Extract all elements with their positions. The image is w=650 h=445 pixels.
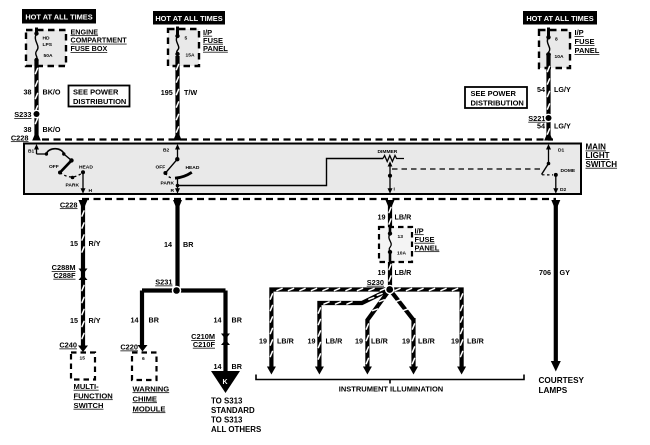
arrow branch 3	[363, 367, 372, 375]
label 38 BK/O (lower)	[24, 125, 61, 134]
svg-text:OFF: OFF	[49, 164, 59, 170]
terminal R output	[171, 188, 181, 194]
label 54 LG/Y (upper)	[537, 85, 571, 94]
connector symbol C228 on wire H	[79, 200, 88, 207]
label WARNING CHIME MODULE	[133, 384, 170, 413]
label 14 BR (chime wire)	[131, 316, 160, 325]
label 14 BR (upper K wire)	[214, 316, 243, 325]
svg-text:LB/R: LB/R	[467, 337, 485, 346]
svg-text:HOT AT ALL TIMES: HOT AT ALL TIMES	[25, 13, 92, 22]
svg-text:H: H	[89, 188, 93, 194]
svg-text:13: 13	[398, 234, 404, 240]
svg-text:15: 15	[70, 316, 78, 325]
svg-text:6: 6	[142, 356, 145, 362]
svg-text:PANEL: PANEL	[203, 44, 228, 53]
svg-text:BK/O: BK/O	[43, 88, 61, 97]
svg-text:C228: C228	[11, 133, 29, 142]
svg-text:C240: C240	[59, 341, 77, 350]
terminal B1 arrow	[28, 144, 39, 155]
label MULTI-FUNCTION SWITCH	[74, 382, 113, 410]
connector C220	[120, 343, 147, 352]
svg-text:DISTRIBUTION: DISTRIBUTION	[471, 99, 524, 108]
svg-text:LB/R: LB/R	[371, 337, 389, 346]
wire 19 LB/R (fuse panel to S230)	[388, 262, 392, 290]
label I/P FUSE PANEL (right top)	[575, 28, 600, 55]
svg-text:R: R	[171, 188, 175, 194]
svg-text:SEE POWER: SEE POWER	[471, 89, 517, 98]
splice S233	[14, 110, 39, 119]
svg-text:OFF: OFF	[156, 165, 166, 171]
wire hatch marks	[35, 64, 549, 363]
label 19 LB/R (below fuse)	[378, 268, 413, 277]
svg-text:HEAD: HEAD	[186, 165, 200, 171]
svg-text:MODULE: MODULE	[133, 404, 166, 413]
svg-text:PANEL: PANEL	[415, 243, 440, 252]
svg-text:B1: B1	[28, 149, 35, 155]
svg-text:COURTESY: COURTESY	[539, 376, 585, 385]
fuse 8 10A	[546, 28, 564, 61]
svg-text:DISTRIBUTION: DISTRIBUTION	[73, 97, 126, 106]
svg-text:195: 195	[161, 88, 173, 97]
svg-text:10A: 10A	[397, 251, 406, 257]
splice dot overlays	[32, 110, 553, 296]
splice S230	[367, 278, 393, 293]
label 19 LB/R branch 3	[355, 337, 389, 346]
arrow branch 2	[315, 367, 324, 375]
bracket instrument illumination	[256, 375, 524, 384]
terminal D2 output	[553, 175, 566, 194]
svg-text:WARNING: WARNING	[133, 384, 170, 393]
wire 15 R/Y (H to C240)	[81, 205, 85, 346]
svg-text:SEE POWER: SEE POWER	[73, 88, 119, 97]
svg-text:15: 15	[70, 239, 78, 248]
svg-text:LB/R: LB/R	[395, 212, 413, 221]
svg-text:LIGHT: LIGHT	[586, 151, 610, 160]
svg-text:LG/Y: LG/Y	[554, 122, 571, 131]
svg-text:LB/R: LB/R	[277, 337, 295, 346]
fuse panel box (middle, dashed)	[379, 227, 412, 262]
arrow courtesy lamps	[551, 361, 561, 372]
engine compartment fuse box (dashed)	[26, 30, 66, 66]
label ENGINE COMPARTMENT FUSE BOX	[71, 27, 128, 53]
svg-text:706: 706	[539, 268, 551, 277]
svg-text:GY: GY	[560, 268, 571, 277]
svg-text:INSTRUMENT ILLUMINATION: INSTRUMENT ILLUMINATION	[339, 384, 443, 393]
label MAIN LIGHT SWITCH	[586, 143, 618, 169]
svg-text:14: 14	[214, 316, 222, 325]
fuse panel box (right top, dashed)	[539, 30, 570, 68]
svg-text:LB/R: LB/R	[326, 337, 344, 346]
svg-text:C228: C228	[60, 200, 78, 209]
svg-text:50A: 50A	[44, 53, 53, 59]
svg-text:C210F: C210F	[193, 340, 216, 349]
svg-text:BK/O: BK/O	[43, 125, 61, 134]
label 15 R/Y (upper)	[70, 239, 101, 248]
fuse HD LPS 50A	[34, 28, 53, 63]
label 54 LG/Y (lower)	[537, 122, 571, 131]
svg-text:D2: D2	[560, 187, 567, 193]
connector C288M C288F	[52, 263, 88, 280]
label 15 R/Y (lower)	[70, 316, 101, 325]
fuse 5 15A	[175, 27, 195, 59]
svg-text:D1: D1	[558, 148, 565, 154]
svg-text:SWITCH: SWITCH	[586, 160, 618, 169]
label 19 LB/R branch 1	[259, 337, 295, 346]
svg-text:LAMPS: LAMPS	[539, 386, 568, 395]
svg-text:LPS: LPS	[43, 42, 53, 48]
svg-text:SWITCH: SWITCH	[74, 401, 104, 410]
svg-text:LB/R: LB/R	[418, 337, 436, 346]
wire 706 GY (D2 to courtesy lamps)	[554, 205, 558, 362]
splice S221	[528, 114, 551, 123]
svg-text:HOT AT ALL TIMES: HOT AT ALL TIMES	[155, 14, 222, 23]
connector symbol on wire D2	[551, 200, 560, 207]
label 19 LB/R (above fuse)	[378, 212, 413, 221]
svg-text:54: 54	[537, 122, 545, 131]
power label HOT AT ALL TIMES (middle)	[153, 11, 225, 25]
splice S231	[155, 278, 179, 294]
wire branch 1 (19 LB/R far left)	[271, 290, 389, 368]
svg-text:BR: BR	[232, 362, 243, 371]
terminal D1 arrow	[546, 144, 565, 164]
fuse panel box (middle top, dashed)	[168, 29, 199, 66]
label 19 LB/R branch 2	[308, 337, 344, 346]
connector dashed line C228 (top)	[42, 138, 553, 140]
label 14 BR (lower K wire)	[214, 362, 243, 371]
wire branch 5 (19 LB/R far right)	[390, 290, 462, 368]
svg-text:10A: 10A	[555, 54, 564, 60]
power label HOT AT ALL TIMES (right)	[523, 11, 597, 25]
svg-text:C288F: C288F	[53, 271, 76, 280]
svg-text:19: 19	[308, 337, 316, 346]
dashed link dimmer to dome contact	[392, 168, 541, 170]
svg-text:CHIME: CHIME	[133, 394, 157, 403]
svg-text:TO S313: TO S313	[211, 415, 243, 424]
svg-text:LG/Y: LG/Y	[554, 85, 571, 94]
wire park feed to dimmer	[178, 159, 384, 186]
wire 19 LB/R (I to fuse panel)	[388, 205, 392, 227]
connector C228 label (top left)	[11, 133, 29, 142]
svg-text:19: 19	[259, 337, 267, 346]
wire 195 T/W	[173, 56, 182, 141]
svg-text:FUSE: FUSE	[575, 37, 595, 46]
svg-text:I/P: I/P	[575, 28, 584, 37]
svg-text:HD: HD	[43, 36, 51, 42]
svg-text:FUSE BOX: FUSE BOX	[71, 44, 108, 53]
svg-text:19: 19	[355, 337, 363, 346]
terminal B2 arrow	[163, 144, 180, 159]
wire branch 3 (19 LB/R)	[367, 290, 389, 368]
box SEE POWER DISTRIBUTION (right)	[465, 87, 527, 108]
svg-text:T/W: T/W	[184, 88, 197, 97]
connector C240	[59, 341, 88, 353]
dome switch contacts	[542, 162, 576, 177]
main light switch box	[24, 144, 581, 195]
label COURTESY LAMPS	[539, 376, 585, 395]
svg-text:FUNCTION: FUNCTION	[74, 391, 113, 400]
wire 54 LG/Y	[544, 56, 553, 141]
label I/P FUSE PANEL (middle top)	[203, 28, 228, 53]
svg-text:19: 19	[378, 268, 386, 277]
svg-text:S230: S230	[367, 278, 384, 287]
label 19 LB/R branch 5	[451, 337, 485, 346]
svg-text:S231: S231	[155, 278, 172, 287]
svg-text:BR: BR	[183, 240, 194, 249]
arrow branch 4	[409, 367, 418, 375]
wire 14 BR (S231 to K)	[223, 291, 227, 372]
svg-text:R/Y: R/Y	[89, 239, 101, 248]
svg-text:5: 5	[185, 35, 188, 41]
wire branch 2 (19 LB/R)	[319, 290, 389, 368]
svg-text:HEAD: HEAD	[79, 165, 93, 171]
terminal H output	[81, 172, 93, 194]
label 195 T/W	[161, 88, 198, 97]
svg-text:TO S313: TO S313	[211, 396, 243, 405]
label 706 GY	[539, 268, 570, 277]
switch 2 contacts (headlamp switch right)	[156, 157, 200, 190]
svg-text:DIMMER: DIMMER	[378, 149, 398, 155]
wire 14 BR (R to S231)	[175, 205, 179, 291]
wire 14 BR (S231 to C220)	[140, 291, 144, 346]
svg-text:54: 54	[537, 85, 545, 94]
svg-text:HOT AT ALL TIMES: HOT AT ALL TIMES	[526, 14, 593, 23]
svg-text:BR: BR	[149, 316, 160, 325]
svg-text:K: K	[222, 379, 227, 386]
wire branch 4 (19 LB/R)	[390, 290, 414, 321]
fuse 13 10A	[388, 227, 407, 262]
svg-text:14: 14	[164, 240, 172, 249]
box SEE POWER DISTRIBUTION (left)	[69, 86, 130, 107]
svg-text:ALL OTHERS: ALL OTHERS	[211, 425, 261, 434]
off-page arrow K	[211, 371, 240, 393]
svg-text:PARK: PARK	[66, 183, 80, 189]
wire S231 branch bar	[142, 288, 226, 292]
svg-text:PARK: PARK	[161, 181, 175, 187]
svg-text:15A: 15A	[186, 53, 195, 59]
svg-text:PANEL: PANEL	[575, 46, 600, 55]
multi-function switch box (dashed)	[71, 353, 95, 380]
arrow branch 5	[457, 367, 466, 375]
label 38 BK/O (upper)	[24, 88, 61, 97]
wire 38 BK/O (fuse box to C228)	[32, 60, 41, 141]
connector dashed line C228 (bottom)	[82, 198, 556, 200]
svg-text:38: 38	[24, 88, 32, 97]
connector C210M C210F	[191, 332, 230, 349]
svg-text:8: 8	[555, 36, 558, 42]
svg-text:14: 14	[214, 362, 222, 371]
switch 1 contacts (headlamp switch left)	[37, 149, 94, 189]
svg-text:19: 19	[451, 337, 459, 346]
svg-text:R/Y: R/Y	[89, 316, 101, 325]
warning chime module box (dashed)	[132, 353, 157, 381]
svg-text:LB/R: LB/R	[395, 268, 413, 277]
connector symbol on wire I	[386, 200, 395, 207]
svg-text:14: 14	[131, 316, 139, 325]
svg-text:15: 15	[80, 356, 86, 362]
power label HOT AT ALL TIMES (left)	[22, 9, 96, 24]
svg-text:S233: S233	[14, 110, 31, 119]
svg-text:MULTI-: MULTI-	[74, 382, 100, 391]
svg-text:19: 19	[378, 212, 386, 221]
connector symbol C228 on wire R	[173, 200, 182, 207]
svg-text:C220: C220	[120, 343, 138, 352]
dimmer rheostat	[378, 149, 405, 178]
label I/P FUSE PANEL (middle)	[415, 226, 440, 252]
svg-text:19: 19	[402, 337, 410, 346]
svg-text:DOME: DOME	[561, 168, 576, 174]
svg-text:BR: BR	[232, 316, 243, 325]
svg-text:STANDARD: STANDARD	[211, 406, 255, 415]
terminal I output	[388, 176, 396, 194]
label 19 LB/R branch 4	[402, 337, 436, 346]
label TO S313 STANDARD / ALL OTHERS	[211, 396, 261, 434]
arrow branch 1	[267, 367, 276, 375]
label 14 BR (R wire)	[164, 240, 194, 249]
svg-text:B2: B2	[163, 148, 170, 154]
